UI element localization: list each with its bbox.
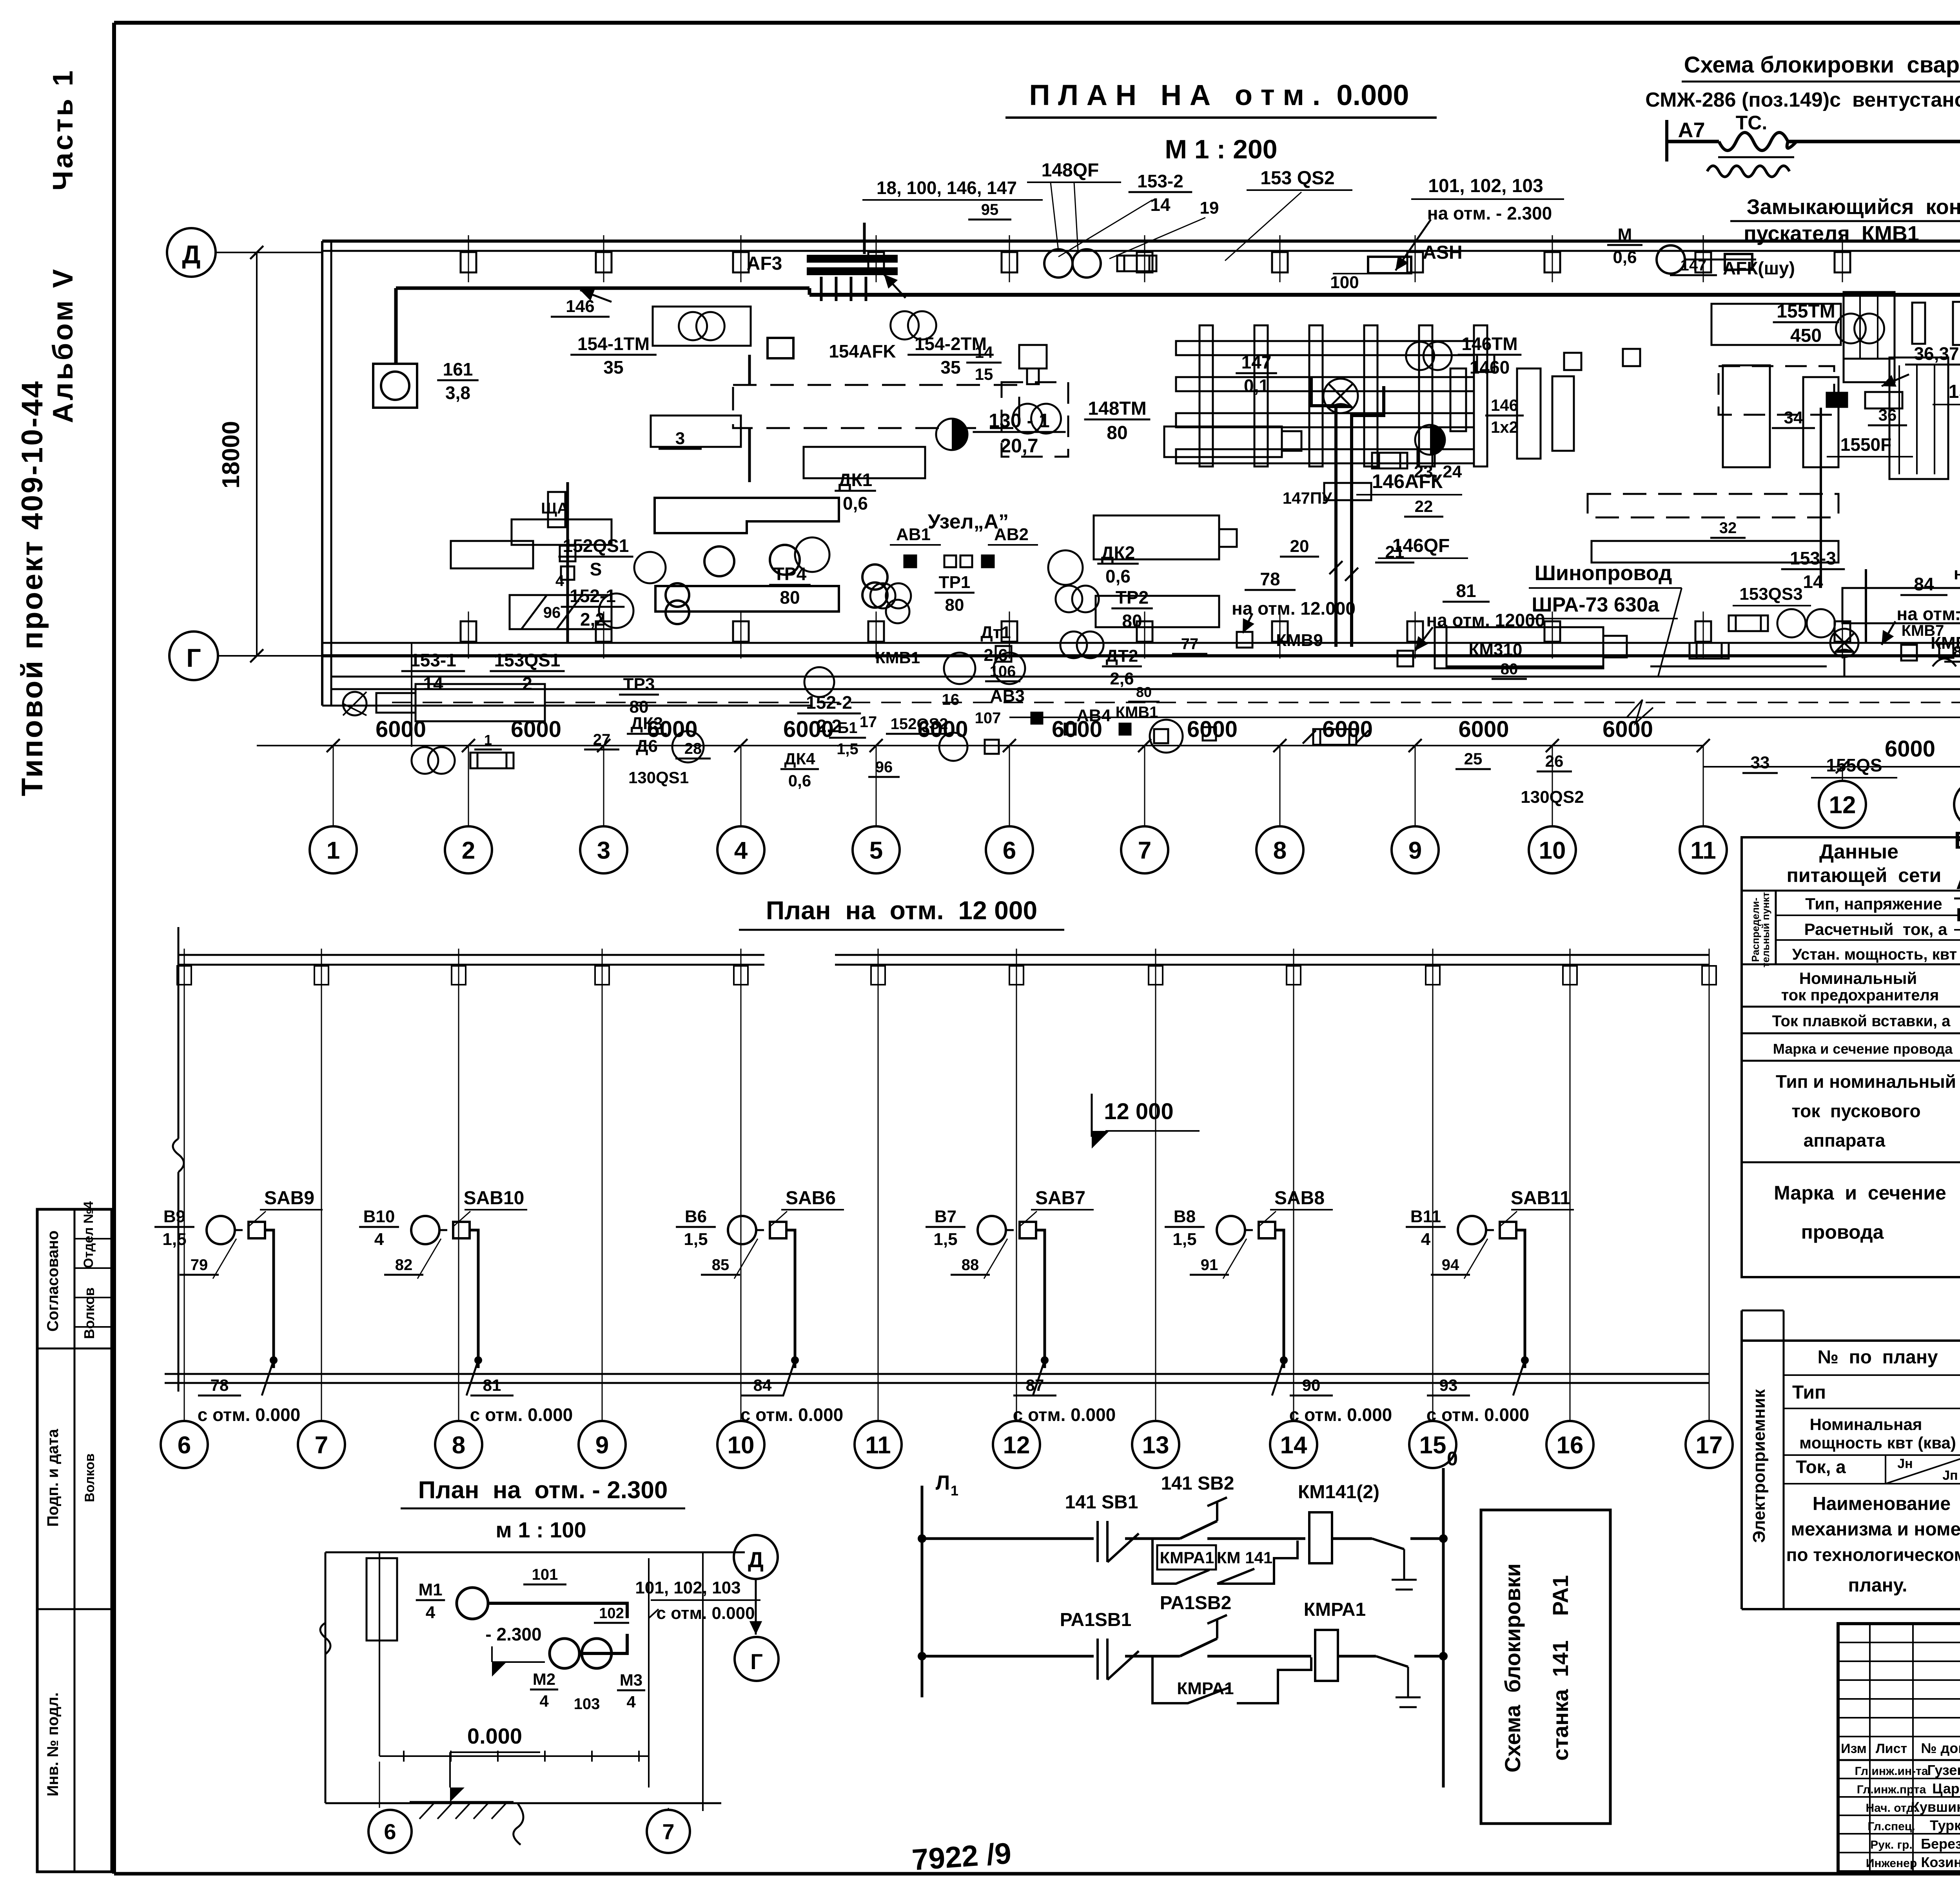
svg-text:153-2: 153-2 (1137, 171, 1183, 191)
labels 153-2 / 14 / 19 and 153 QS2 (1058, 168, 1352, 261)
svg-text:Марка и сечение: Марка и сечение (1774, 1182, 1946, 1204)
svg-text:82: 82 (395, 1256, 413, 1274)
title: План на отм. 12000 (739, 896, 1064, 930)
svg-text:- 2.300: - 2.300 (485, 1624, 541, 1644)
svg-text:147: 147 (1241, 352, 1272, 372)
labels 146QF 146АFК 22 шинопровод (1356, 449, 1682, 676)
svg-text:ASH: ASH (1423, 242, 1462, 263)
svg-text:17: 17 (1696, 1432, 1723, 1459)
svg-text:4: 4 (1421, 1230, 1431, 1249)
svg-text:Волков: Волков (81, 1287, 97, 1339)
machine rows left of axis 3 (343, 684, 545, 774)
svg-text:В9: В9 (163, 1207, 185, 1226)
svg-text:1х2: 1х2 (1491, 418, 1518, 436)
svg-text:Электроприемник: Электроприемник (1749, 1389, 1769, 1543)
svg-text:Ток, а: Ток, а (1796, 1457, 1846, 1477)
plan -2.300 outline (320, 1552, 745, 1811)
svg-text:Альбом V: Альбом V (47, 267, 79, 423)
svg-text:ТР3: ТР3 (623, 675, 655, 694)
svg-text:с отм. 0.000: с отм. 0.000 (1013, 1405, 1116, 1425)
svg-text:КМВ1: КМВ1 (1116, 704, 1158, 721)
panel АF3 with heavy bars (747, 223, 906, 301)
svg-text:80: 80 (1107, 423, 1127, 443)
svg-text:М 1 : 200: М 1 : 200 (1165, 134, 1277, 164)
svg-text:78: 78 (211, 1376, 229, 1394)
svg-text:КМРА1: КМРА1 (1177, 1679, 1234, 1698)
svg-text:141 SВ2: 141 SВ2 (1161, 1473, 1234, 1494)
svg-text:12: 12 (1003, 1432, 1030, 1459)
svg-text:26: 26 (1545, 752, 1564, 770)
svg-text:ДТ2: ДТ2 (1106, 646, 1138, 666)
level mark 12 000 (1092, 1094, 1200, 1149)
labels 81 на отм 12000 КМ310 (1397, 581, 1627, 679)
svg-text:146АFК: 146АFК (1372, 470, 1443, 492)
title: Ввод от шинопровода АПВ3 (1х35) (1954, 827, 1960, 858)
svg-text:6: 6 (1003, 837, 1016, 864)
svg-text:153 QS2: 153 QS2 (1260, 168, 1334, 189)
svg-text:1,5: 1,5 (933, 1230, 957, 1249)
svg-text:1460: 1460 (1470, 357, 1510, 377)
svg-text:Д: Д (748, 1547, 764, 1572)
svg-text:3: 3 (597, 837, 610, 864)
equipment cluster at axes 2-4 (152QS1, 152-1, ТР, ДК) (541, 470, 1216, 762)
svg-text:ТР2: ТР2 (1116, 587, 1149, 608)
svg-text:100: 100 (1330, 273, 1359, 292)
ladder rung 1: 141SB1 141SB2 КМ141(2) (918, 1473, 1448, 1590)
svg-text:147: 147 (1681, 257, 1707, 274)
svg-text:84: 84 (753, 1376, 772, 1394)
svg-text:Согласовано: Согласовано (44, 1230, 62, 1332)
svg-text:Инв. № подл.: Инв. № подл. (44, 1692, 62, 1796)
labels along bottom: 1 27 28 130QS1 etc (474, 643, 1960, 807)
schema B1 circuit: terminal A7, coil ТС, contact КМВ1, terminal B7 (1667, 99, 1960, 255)
svg-text:34: 34 (1784, 408, 1803, 427)
svg-text:10: 10 (1539, 837, 1566, 864)
svg-text:1,5: 1,5 (837, 740, 858, 758)
svg-text:1,5: 1,5 (162, 1230, 186, 1249)
switch 154АFK (768, 338, 896, 361)
cable 146 thick run (396, 288, 809, 365)
svg-text:на отм. 12.000: на отм. 12.000 (1232, 598, 1356, 619)
svg-text:152QS2: 152QS2 (891, 715, 948, 733)
svg-text:3,8: 3,8 (445, 383, 470, 403)
svg-text:Туркин: Туркин (1930, 1817, 1960, 1833)
svg-text:ШРА-73 630а: ШРА-73 630а (1532, 593, 1659, 616)
svg-text:146: 146 (1491, 396, 1518, 414)
КМВ boxes and wires bottom band middle (412, 643, 1168, 747)
svg-text:16: 16 (942, 691, 960, 708)
svg-text:81: 81 (1456, 581, 1476, 601)
svg-text:ТР1: ТР1 (939, 573, 971, 592)
svg-text:ТР4: ТР4 (773, 564, 807, 584)
plan 12000 top wall (177, 949, 1716, 996)
svg-text:План на отм. 12 000: План на отм. 12 000 (766, 896, 1038, 925)
svg-text:Jп: Jп (1942, 1468, 1958, 1483)
svg-text:32: 32 (1719, 519, 1737, 537)
svg-text:90: 90 (1302, 1376, 1321, 1394)
label box: Схема блокировки станка 141 РА1 (1481, 1510, 1610, 1824)
ladder rung 2 bypass КМРА1 (1152, 1656, 1311, 1703)
ladder rail Л1 (922, 1472, 958, 1697)
plan 12000 column leader lines (184, 996, 1709, 1345)
svg-text:1,5: 1,5 (684, 1230, 708, 1249)
svg-text:18, 100, 146, 147: 18, 100, 146, 147 (877, 178, 1017, 198)
svg-text:1: 1 (484, 732, 492, 748)
svg-text:Гл.спец.: Гл.спец. (1867, 1820, 1915, 1833)
dimension 18000 vertical (218, 252, 257, 656)
svg-text:Замыкающийся контакт: Замыкающийся контакт (1747, 195, 1960, 219)
svg-text:питающей сети: питающей сети (1787, 864, 1942, 886)
svg-text:11: 11 (865, 1432, 891, 1459)
svg-text:2: 2 (522, 673, 532, 694)
svg-text:12: 12 (1829, 791, 1856, 818)
switch 147 АFK(шу) (1670, 254, 1795, 278)
svg-text:80: 80 (945, 595, 964, 615)
svg-text:13: 13 (1142, 1432, 1169, 1459)
svg-text:Д6: Д6 (636, 737, 658, 756)
svg-text:Шинопровод: Шинопровод (1535, 561, 1672, 585)
svg-text:1550F: 1550F (1840, 434, 1891, 455)
transformer 154-2ТМ (891, 311, 994, 377)
svg-text:Березина: Березина (1921, 1836, 1960, 1852)
svg-text:14: 14 (1150, 194, 1171, 215)
svg-text:7: 7 (315, 1432, 328, 1459)
riser 20/21 thick verticals (1280, 376, 1414, 647)
svg-text:102: 102 (599, 1605, 624, 1622)
svg-text:механизма и номер: механизма и номер (1791, 1519, 1960, 1540)
dimension line 6000 row, columns 12-17 (1627, 700, 1960, 781)
svg-text:2: 2 (462, 837, 475, 864)
svg-text:с отм. 0.000: с отм. 0.000 (656, 1604, 755, 1623)
svg-text:33: 33 (1751, 753, 1770, 772)
svg-text:Л: Л (936, 1472, 950, 1494)
svg-text:Рук. гр.: Рук. гр. (1870, 1838, 1913, 1851)
svg-text:с отм. 0.000: с отм. 0.000 (198, 1405, 301, 1425)
svg-text:ЩА: ЩА (541, 500, 568, 517)
svg-text:Козинова: Козинова (1921, 1854, 1960, 1870)
table: Данные питающей сети (1742, 837, 1960, 1277)
transformer 146ТМ and related (1406, 334, 1524, 481)
svg-text:Расчетный ток, а: Расчетный ток, а (1804, 920, 1947, 938)
svg-text:36,37: 36,37 (1914, 343, 1959, 364)
svg-text:станка 141 РА1: станка 141 РА1 (1548, 1575, 1573, 1761)
machine 161 with motor (373, 359, 479, 408)
svg-text:Марка и сечение провода: Марка и сечение провода (1773, 1041, 1953, 1057)
svg-text:ТС.: ТС. (1736, 112, 1768, 134)
svg-text:25: 25 (1464, 749, 1483, 768)
svg-text:В10: В10 (363, 1207, 395, 1226)
svg-text:П Л А Н Н А о т м . 0.000: П Л А Н Н А о т м . 0.000 (1029, 79, 1409, 111)
svg-text:с отм. 0.000: с отм. 0.000 (740, 1405, 844, 1425)
svg-text:Номинальная: Номинальная (1810, 1415, 1922, 1434)
svg-text:130QS2: 130QS2 (1521, 788, 1584, 807)
ladder rung 2: РА1SB1 РА1SB2 КМРА1 (918, 1593, 1448, 1707)
svg-text:146QF: 146QF (1392, 535, 1450, 556)
svg-text:81: 81 (483, 1376, 501, 1394)
svg-text:Б1: Б1 (838, 719, 858, 737)
svg-text:153-1: 153-1 (410, 650, 456, 670)
svg-text:на отм. - 2.300: на отм. - 2.300 (1427, 203, 1552, 223)
svg-text:8: 8 (1273, 837, 1287, 864)
grid circles 6 7 of plan -2.300 (368, 1762, 690, 1853)
svg-text:SAB10: SAB10 (464, 1188, 524, 1209)
svg-text:Наименование: Наименование (1813, 1494, 1951, 1514)
svg-text:Гузенко: Гузенко (1927, 1762, 1960, 1778)
svg-text:В11: В11 (1410, 1207, 1441, 1226)
labels 18,100,146,147 / 95 and 148QF (862, 160, 1121, 251)
svg-text:М3: М3 (620, 1671, 642, 1689)
svg-text:А7: А7 (1678, 118, 1705, 142)
label 101,102,103 на отм.-2.300 (1396, 176, 1564, 270)
svg-text:пускателя КМВ1: пускателя КМВ1 (1744, 222, 1919, 245)
svg-text:4: 4 (539, 1692, 549, 1710)
motor pair 153-2 on wall (1044, 249, 1156, 278)
svg-text:№ докум.: № докум. (1921, 1740, 1960, 1756)
grid circles 1-11 (310, 826, 357, 873)
motors M1 M2 M3 at -2.300 (416, 1566, 760, 1713)
label AF3 (СПУ62-6/I) (1954, 870, 1960, 941)
svg-text:3: 3 (675, 429, 685, 448)
svg-text:4: 4 (555, 572, 564, 590)
svg-text:10: 10 (728, 1432, 755, 1459)
svg-text:В6: В6 (685, 1207, 707, 1226)
svg-text:Ток плавкой вставки, а: Ток плавкой вставки, а (1772, 1013, 1951, 1030)
svg-text:8: 8 (452, 1432, 465, 1459)
svg-text:КМВ1: КМВ1 (875, 648, 920, 667)
svg-text:на отм. 12.000: на отм. 12.000 (1954, 564, 1960, 583)
svg-text:Номинальный: Номинальный (1799, 969, 1917, 987)
axis circle Г (169, 632, 322, 680)
level mark 0.000 with hatch (410, 1724, 540, 1819)
conveyor machine 147 (hatched) (1176, 325, 1487, 507)
title block (штамп) (1838, 1624, 1960, 1872)
svg-text:148QF: 148QF (1042, 160, 1099, 181)
svg-text:18000: 18000 (218, 421, 245, 488)
svg-text:ДК4: ДК4 (784, 749, 816, 768)
transformer 154-1ТМ (570, 307, 751, 377)
svg-text:провода: провода (1801, 1221, 1884, 1243)
svg-text:Инженер: Инженер (1866, 1857, 1917, 1870)
svg-text:КМ310: КМ310 (1469, 640, 1523, 659)
svg-text:20: 20 (1290, 537, 1309, 556)
switch units SAB row (154, 1188, 323, 1396)
svg-text:Тип, напряжение: Тип, напряжение (1805, 895, 1942, 913)
wavy break bottom of plan -2.300 (514, 1803, 523, 1845)
svg-text:146ТМ: 146ТМ (1461, 334, 1517, 354)
svg-text:В7: В7 (935, 1207, 956, 1226)
svg-text:77: 77 (1181, 635, 1199, 653)
svg-text:РА1SВ1: РА1SВ1 (1060, 1610, 1132, 1630)
svg-text:с отм. 0.000: с отм. 0.000 (1289, 1405, 1392, 1425)
plan 12000 left boundary (173, 927, 184, 1392)
svg-text:м 1 : 100: м 1 : 100 (495, 1517, 586, 1542)
svg-text:7922 /9: 7922 /9 (911, 1836, 1013, 1876)
labels 36,37 155АFK 34 1550F with dashed enclosure (1719, 343, 1960, 588)
grid circles 6-17 of plan 12000 (161, 1345, 208, 1468)
svg-text:27: 27 (593, 731, 611, 748)
svg-text:84: 84 (1914, 574, 1934, 594)
svg-text:Подп. и дата: Подп. и дата (44, 1428, 62, 1526)
svg-text:КМВ7: КМВ7 (1902, 622, 1944, 639)
svg-text:6000: 6000 (1602, 717, 1653, 742)
svg-text:20,7: 20,7 (1000, 435, 1038, 457)
svg-text:101, 102, 103: 101, 102, 103 (1428, 176, 1543, 196)
plan 0.000 building walls (322, 241, 1960, 719)
svg-text:аппарата: аппарата (1804, 1130, 1886, 1151)
svg-text:147ПУ: 147ПУ (1283, 489, 1332, 507)
machine 155ТМ cluster at axes 11-12 (1711, 292, 1960, 382)
svg-text:2,6: 2,6 (1110, 669, 1134, 688)
left bottom stamp boxes (37, 1201, 112, 1872)
svg-text:91: 91 (1201, 1256, 1218, 1274)
svg-text:80: 80 (1136, 684, 1152, 700)
labels 1530S3 153-3 cluster at axis 11-12 (1710, 519, 1960, 643)
svg-text:АВ3: АВ3 (990, 686, 1025, 706)
svg-text:4: 4 (734, 837, 748, 864)
central machine complex УзелА (510, 498, 887, 629)
svg-text:Схема блокировки сварочной: Схема блокировки сварочной машины (1684, 52, 1960, 78)
svg-text:6000: 6000 (1885, 736, 1935, 762)
svg-text:Царев: Царев (1932, 1780, 1960, 1797)
schema title: Схема блокировки сварочной машины СМЖ-286 (1645, 52, 1960, 111)
labels с отм. 0.000 bottom row (198, 1376, 301, 1425)
svg-text:9: 9 (1408, 837, 1422, 864)
svg-text:96: 96 (543, 604, 561, 621)
svg-text:Гл.инж.ин-та: Гл.инж.ин-та (1855, 1765, 1928, 1778)
svg-text:4: 4 (626, 1693, 636, 1711)
svg-text:СМЖ-286 (поз.149)с вентустано: СМЖ-286 (поз.149)с вентустановкой В1 (1645, 89, 1960, 111)
svg-text:148ТМ: 148ТМ (1088, 398, 1146, 419)
svg-text:5: 5 (869, 837, 883, 864)
labels 130-1 half circle (936, 410, 1066, 457)
svg-text:Кувшинский: Кувшинский (1911, 1799, 1960, 1815)
svg-text:Д: Д (182, 240, 200, 269)
svg-text:Тип и номинальный: Тип и номинальный (1776, 1071, 1956, 1092)
svg-text:35: 35 (940, 357, 960, 377)
svg-text:153-3: 153-3 (1790, 548, 1836, 568)
grid circles 12-17 (1819, 781, 1866, 828)
svg-text:АВ1: АВ1 (896, 525, 931, 544)
table: Электроприемник lower table (1742, 1310, 1960, 1609)
svg-text:АF3: АF3 (747, 253, 782, 274)
svg-text:7: 7 (1138, 837, 1151, 864)
svg-text:Схема блокировки: Схема блокировки (1500, 1563, 1525, 1773)
svg-text:79: 79 (191, 1256, 208, 1274)
svg-text:22: 22 (1415, 497, 1433, 515)
svg-text:План на отм. - 2.300: План на отм. - 2.300 (418, 1477, 668, 1504)
svg-text:17: 17 (860, 713, 877, 731)
svg-text:78: 78 (1260, 569, 1280, 589)
svg-text:155ТМ: 155ТМ (1777, 301, 1835, 322)
switch ASH on wall (1330, 242, 1462, 292)
svg-text:130QS1: 130QS1 (628, 768, 689, 787)
svg-text:Отдел №4: Отдел №4 (81, 1201, 96, 1268)
svg-text:Данные: Данные (1819, 840, 1898, 863)
plan 12000 bottom wall (165, 1374, 1709, 1383)
svg-text:141 SВ1: 141 SВ1 (1065, 1492, 1138, 1513)
svg-text:Изм: Изм (1841, 1741, 1867, 1756)
svg-text:КМВ9: КМВ9 (1276, 631, 1323, 650)
svg-text:161: 161 (443, 359, 473, 379)
svg-text:КМ 141: КМ 141 (1217, 1548, 1272, 1567)
label: Замыкающийся контакт пускателя КМВ1 (1730, 195, 1960, 245)
svg-text:0: 0 (1447, 1448, 1458, 1470)
svg-text:12 000: 12 000 (1104, 1099, 1173, 1124)
svg-text:с отм. 0.000: с отм. 0.000 (470, 1405, 573, 1425)
svg-text:19: 19 (1200, 198, 1219, 218)
svg-text:0.000: 0.000 (467, 1724, 522, 1748)
svg-text:6000: 6000 (1458, 717, 1509, 742)
svg-text:4: 4 (426, 1603, 436, 1622)
svg-text:SAB9: SAB9 (264, 1188, 314, 1209)
label М 0,6 and motor on wall (1607, 225, 1756, 274)
svg-text:ДК1: ДК1 (838, 470, 872, 490)
svg-text:6: 6 (178, 1432, 191, 1459)
svg-text:Часть 1: Часть 1 (47, 68, 79, 191)
svg-text:80: 80 (780, 587, 800, 608)
svg-text:М: М (1618, 225, 1632, 244)
svg-text:107: 107 (975, 710, 1001, 727)
svg-text:Узел„А”: Узел„А” (928, 510, 1009, 533)
svg-text:101, 102, 103: 101, 102, 103 (635, 1578, 740, 1597)
svg-text:Ввод от шинопровода: Ввод от шинопровода (1954, 827, 1960, 854)
svg-text:0,1: 0,1 (1244, 376, 1269, 396)
svg-text:S: S (590, 559, 602, 579)
svg-text:87: 87 (1026, 1376, 1044, 1394)
svg-text:Лист: Лист (1876, 1741, 1907, 1756)
dashed enclosure at axes 3-5 (659, 355, 1019, 482)
svg-text:0,6: 0,6 (1105, 566, 1131, 586)
svg-text:14: 14 (975, 343, 993, 361)
svg-text:6: 6 (384, 1819, 396, 1844)
svg-text:на отм. 12000: на отм. 12000 (1896, 604, 1960, 624)
svg-text:153QS1: 153QS1 (494, 650, 561, 670)
svg-text:Волков: Волков (82, 1454, 97, 1502)
svg-text:4: 4 (374, 1230, 384, 1249)
svg-text:плану.: плану. (1848, 1575, 1907, 1596)
ladder rail 0 (1443, 1448, 1458, 1787)
svg-text:106: 106 (990, 663, 1016, 680)
svg-text:15: 15 (1419, 1432, 1446, 1459)
svg-text:0,6: 0,6 (788, 771, 811, 790)
svg-text:Г: Г (186, 643, 201, 672)
column stubs on walls (461, 235, 1960, 659)
svg-text:SAB8: SAB8 (1274, 1188, 1325, 1209)
svg-text:86: 86 (1953, 643, 1960, 661)
svg-text:М2: М2 (533, 1670, 555, 1688)
misc machines middle band (1517, 349, 1960, 563)
machine row right of axis 9 with lamp (1650, 574, 1960, 677)
svg-text:ДК3: ДК3 (631, 714, 663, 733)
svg-text:153QS3: 153QS3 (1739, 584, 1802, 604)
svg-text:1,5: 1,5 (1172, 1230, 1196, 1249)
machine 148ТМ cluster (966, 343, 1301, 457)
svg-text:101: 101 (532, 1566, 558, 1583)
svg-text:Jн: Jн (1897, 1456, 1913, 1471)
svg-text:ток предохранителя: ток предохранителя (1781, 987, 1939, 1004)
svg-text:1: 1 (951, 1483, 958, 1499)
axis circle Д (167, 228, 322, 277)
svg-text:155АFK: 155АFK (1949, 381, 1960, 402)
svg-text:14: 14 (423, 673, 443, 694)
svg-text:154-1ТМ: 154-1ТМ (577, 334, 650, 354)
svg-text:АFК(шу): АFК(шу) (1723, 258, 1795, 278)
svg-text:КМ141(2): КМ141(2) (1298, 1482, 1379, 1503)
svg-text:15: 15 (975, 365, 993, 383)
svg-text:КМРА1: КМРА1 (1160, 1548, 1214, 1567)
ladder rung 1 bypass contacts КМРА1 КМ141 (1152, 1539, 1298, 1584)
machines lower band middle (451, 416, 1603, 666)
